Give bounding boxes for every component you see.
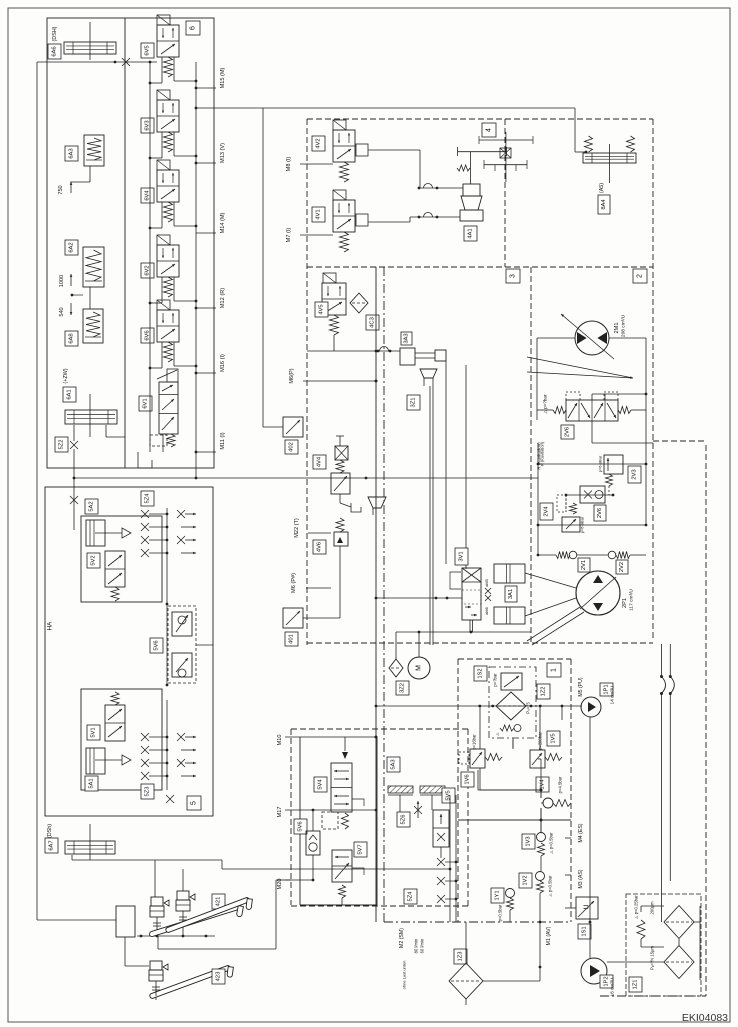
orifice rows upper: [141, 510, 149, 518]
svg-text:1: 1: [551, 668, 558, 672]
valve 4V4: [339, 436, 341, 446]
svg-text:M10: M10: [277, 735, 283, 746]
svg-text:6: 6: [190, 26, 197, 30]
svg-text:M6(P): M6(P): [289, 368, 295, 383]
right bus: [195, 62, 197, 478]
svg-text:3Z2: 3Z2: [400, 683, 406, 693]
component 3A3: [401, 332, 412, 345]
svg-text:5V2: 5V2: [91, 555, 97, 565]
small wires: [540, 856, 542, 871]
svg-text:6A1: 6A1: [67, 389, 73, 399]
swash lever: [527, 357, 633, 378]
svg-text:2V1: 2V1: [581, 560, 587, 570]
M group wires: [312, 810, 314, 831]
pilot 4V1: [356, 214, 368, 226]
svg-text:421: 421: [216, 897, 222, 907]
svg-text:1V6: 1V6: [465, 774, 471, 784]
port label M14 (M): [196, 232, 216, 234]
check 1V3: [537, 833, 546, 842]
pedal A: [149, 905, 240, 937]
master cylinder C: [150, 961, 162, 970]
cylinder 5A2: [85, 499, 98, 514]
svg-text:5V7: 5V7: [358, 844, 364, 854]
cylinder 5A1: [86, 748, 105, 774]
pedal wires: [37, 919, 116, 921]
label 5Z3: [141, 784, 154, 799]
group 6 box: [47, 18, 214, 468]
filter 4C3: [350, 293, 368, 313]
svg-text:3: 3: [510, 274, 517, 278]
wires bottom: [465, 922, 467, 963]
check 1V4: [543, 798, 553, 808]
check 1V2: [519, 873, 532, 888]
svg-text:5A2: 5A2: [89, 501, 95, 511]
svg-text:5V6: 5V6: [154, 640, 160, 650]
wire y706: [376, 705, 582, 707]
svg-text:1V3: 1V3: [526, 836, 532, 846]
kavitation wires: [537, 443, 539, 556]
svg-text:M2 (SM): M2 (SM): [399, 928, 405, 948]
group1 wires: [479, 706, 481, 749]
svg-text:16 cm³/U: 16 cm³/U: [610, 978, 615, 997]
svg-text:5Z4: 5Z4: [145, 493, 151, 504]
group1 wires: [477, 770, 479, 790]
label 423: [212, 969, 225, 984]
stems: [156, 931, 158, 936]
svg-text:p=?bar: p=?bar: [493, 673, 498, 687]
pump 1P2: [581, 958, 607, 984]
svg-text:aM6: aM6: [485, 607, 489, 614]
wire below 6A6: [37, 61, 157, 63]
svg-text:3V1: 3V1: [459, 551, 465, 561]
svg-text:HA: HA: [47, 621, 54, 630]
svg-text:2V6: 2V6: [565, 427, 571, 437]
check 2V2: [608, 551, 616, 559]
tank bracket: [138, 452, 152, 468]
svg-text:aM5: aM5: [485, 579, 489, 586]
svg-text:M3 (AS): M3 (AS): [578, 869, 584, 888]
svg-text:4V4: 4V4: [317, 456, 323, 467]
svg-text:1V2: 1V2: [523, 875, 529, 885]
orifice: [70, 441, 78, 449]
valve 6V3: [157, 90, 170, 100]
svg-text:1Z3: 1Z3: [458, 952, 464, 962]
orifice rows lower: [141, 733, 149, 741]
filter 1Z3: [454, 949, 467, 964]
port label M15 (M): [196, 87, 216, 89]
svg-text:EKI04083: EKI04083: [682, 1012, 728, 1024]
bypass valve: [501, 673, 522, 690]
svg-text:M6 (P#): M6 (P#): [291, 573, 297, 593]
svg-text:5A1: 5A1: [89, 778, 95, 788]
svg-text:5V6: 5V6: [298, 821, 304, 831]
svg-text:117 cm³/U: 117 cm³/U: [629, 589, 635, 611]
label 421: [212, 894, 225, 909]
svg-text:(DSh): (DSh): [47, 824, 53, 838]
HA box: [45, 487, 213, 816]
svg-text:208 cm³/U: 208 cm³/U: [621, 314, 627, 337]
svg-text:6A7: 6A7: [49, 840, 55, 850]
pump 1P1: [581, 697, 601, 717]
svg-text:M1 (AV): M1 (AV): [546, 926, 552, 945]
master cylinder A: [151, 897, 163, 906]
svg-text:6V5: 6V5: [145, 45, 151, 55]
relief 1V6: [470, 749, 485, 768]
label 5A3: [387, 757, 400, 772]
port M11: [196, 451, 216, 453]
coupling wires: [661, 644, 663, 677]
svg-text:M8 (I): M8 (I): [286, 157, 292, 172]
svg-text:2: 2: [637, 274, 644, 278]
port label M12 (R): [196, 307, 216, 309]
svg-text:p=6-9Bar: p=6-9Bar: [598, 455, 603, 472]
group 1 label: [547, 663, 561, 677]
svg-text:M17: M17: [277, 807, 283, 818]
svg-text:5: 5: [191, 801, 198, 805]
svg-text:(A5): (A5): [599, 183, 605, 193]
accumulator 6A8: [83, 309, 103, 343]
group 3 label: [506, 269, 520, 283]
svg-text:△ p=0.25bar: △ p=0.25bar: [634, 895, 639, 919]
svg-text:△ p=0.5bar: △ p=0.5bar: [548, 875, 553, 897]
svg-text:M12 (R): M12 (R): [220, 288, 226, 308]
valve 4V2: [333, 120, 346, 130]
svg-text:p=0.5bar: p=0.5bar: [498, 904, 503, 921]
svg-text:6V1: 6V1: [143, 398, 149, 408]
group 4 label: [482, 123, 496, 137]
motor M: [418, 632, 420, 657]
svg-text:M11 (I): M11 (I): [220, 432, 226, 449]
svg-text:5V1: 5V1: [91, 727, 97, 737]
valve 4V6 relief: [336, 518, 344, 532]
svg-text:p=16bar: p=16bar: [472, 734, 477, 750]
svg-text:1S1: 1S1: [582, 926, 588, 936]
svg-text:p=6-9Bar: p=6-9Bar: [580, 516, 585, 533]
svg-text:401: 401: [289, 634, 295, 644]
relief 2V5: [604, 455, 623, 474]
svg-text:1S2: 1S2: [478, 668, 484, 678]
svg-text:4V6: 4V6: [317, 542, 323, 552]
2V6 outlet: [591, 421, 593, 443]
svg-text:8A4: 8A4: [601, 199, 607, 210]
steering unit 4A1: [470, 152, 472, 184]
pump 2P1: [576, 571, 620, 615]
label 1P1: [600, 683, 613, 696]
switch 1S1: [576, 897, 598, 919]
svg-text:402: 402: [289, 442, 295, 452]
svg-text:Pₙ=75: Pₙ=75: [526, 702, 531, 714]
svg-text:R (Kavitation): R (Kavitation): [540, 441, 545, 466]
valve 5V6 mid: [168, 606, 196, 683]
cylinder 6A6: [64, 42, 116, 54]
label 4A1: [464, 226, 477, 241]
svg-text:4V2: 4V2: [316, 138, 322, 148]
svg-text:1V4: 1V4: [540, 779, 546, 790]
svg-text:5V5: 5V5: [446, 790, 452, 800]
svg-text:M22 (T): M22 (T): [294, 518, 300, 538]
svg-text:5Z6: 5Z6: [401, 815, 407, 825]
svg-text:2P1: 2P1: [622, 598, 628, 608]
svg-text:5Z4: 5Z4: [408, 891, 414, 902]
check 5V6b: [294, 819, 307, 834]
svg-text:540: 540: [59, 307, 65, 316]
svg-text:6A6: 6A6: [52, 46, 58, 56]
label 5Z4: [141, 491, 154, 506]
filter diamond: [496, 692, 526, 720]
svg-text:4C3: 4C3: [370, 317, 376, 328]
svg-text:1Z1: 1Z1: [633, 980, 639, 990]
hatched pad A: [388, 786, 413, 793]
throttle arrow: [414, 806, 422, 814]
valve 1Y1: [491, 888, 504, 903]
svg-text:M7 (I): M7 (I): [286, 228, 292, 243]
cylinder 3A1 bottom: [494, 607, 525, 624]
3V1 tank pipe: [469, 620, 471, 632]
svg-text:M14 (M): M14 (M): [220, 212, 226, 233]
1Z1 wires: [678, 939, 680, 946]
hatched pad B: [420, 786, 445, 793]
label 5Z2: [55, 437, 68, 452]
svg-text:1Z2: 1Z2: [541, 687, 547, 697]
svg-text:14 cm³/U: 14 cm³/U: [610, 686, 615, 705]
svg-text:△ p=?bar: △ p=?bar: [543, 394, 548, 413]
svg-text:M16 (I): M16 (I): [220, 354, 226, 372]
valve 6V6: [157, 300, 170, 310]
pedal bus: [137, 935, 215, 937]
pilot 4V2: [356, 144, 368, 156]
group 5 label: [187, 796, 201, 810]
wires from HA: [71, 855, 73, 860]
svg-text:5A3: 5A3: [391, 759, 397, 769]
svg-text:3A1: 3A1: [508, 589, 514, 599]
valve 4V1: [333, 190, 346, 200]
valve 6V1: [159, 382, 178, 434]
filter unit 1Z2 box: [489, 667, 536, 738]
sub box lower: [81, 689, 162, 790]
wires to steering: [368, 149, 420, 151]
group boundary dashes: [306, 119, 308, 645]
svg-text:M13 (V): M13 (V): [220, 143, 226, 163]
svg-text:2V6: 2V6: [597, 508, 603, 518]
strainer 3Z1: [420, 369, 437, 378]
svg-text:3Z1: 3Z1: [411, 398, 417, 408]
stem C: [155, 995, 157, 1000]
svg-text:6A8: 6A8: [69, 333, 75, 343]
throttle check 2V4: [566, 494, 613, 496]
svg-text:(DSH): (DSH): [52, 26, 58, 41]
orifice2: [70, 496, 78, 504]
valve 6V4: [157, 160, 170, 170]
wire: [333, 335, 335, 351]
inner solid box M ports: [299, 737, 301, 905]
wire 4V6 down: [339, 570, 341, 618]
valve 6V5: [157, 15, 170, 25]
svg-text:Pₑ=?N 15μm: Pₑ=?N 15μm: [650, 946, 655, 970]
sub box upper: [81, 516, 162, 602]
valve 5V2: [105, 551, 125, 587]
wire bus y478: [74, 477, 538, 479]
label 6A3: [65, 146, 78, 161]
pedal C: [150, 966, 230, 999]
spring check: [500, 725, 514, 731]
svg-text:6A3: 6A3: [69, 148, 75, 158]
svg-text:M15 (M): M15 (M): [220, 67, 226, 88]
pressure switch 402: [283, 417, 303, 437]
left bus: [149, 62, 151, 452]
svg-text:M5 (PU): M5 (PU): [578, 677, 584, 697]
relief 1V5: [530, 750, 545, 768]
svg-text:4V1: 4V1: [316, 209, 322, 219]
svg-text:M4 (ES): M4 (ES): [578, 823, 584, 842]
group 6 label: [186, 21, 200, 35]
main bus vertical: [375, 267, 377, 922]
pressure switch 401: [283, 608, 303, 628]
label 5Z4b: [404, 889, 417, 904]
svg-text:6A2: 6A2: [69, 242, 75, 252]
svg-text:1V5: 1V5: [551, 733, 557, 743]
svg-text:2M1: 2M1: [614, 323, 620, 334]
motor 2M1: [575, 321, 609, 355]
svg-text:5Z3: 5Z3: [145, 787, 151, 797]
svg-text:200μm: 200μm: [650, 901, 655, 914]
relief 2V6b: [562, 517, 580, 532]
svg-text:3A3: 3A3: [404, 333, 410, 343]
svg-text:4A1: 4A1: [468, 228, 474, 238]
coupling B: [669, 675, 672, 678]
mid bus: [166, 508, 168, 604]
svg-text:ohne Last unten: ohne Last unten: [402, 961, 407, 990]
orifice column: [437, 858, 445, 866]
svg-text:1000: 1000: [59, 275, 65, 287]
svg-text:1Y1: 1Y1: [495, 890, 501, 900]
valve 5V7: [332, 850, 352, 882]
svg-text:2V4: 2V4: [544, 506, 550, 517]
cylinder 3A1 top: [494, 564, 525, 583]
loop wires: [537, 337, 575, 339]
wire 3A3 to 3V1: [445, 361, 447, 564]
svg-text:2V3: 2V3: [632, 469, 638, 479]
svg-text:M20: M20: [277, 879, 283, 890]
accumulator 6A2: [83, 247, 104, 287]
svg-text:4: 4: [486, 128, 493, 132]
master cylinder B: [177, 891, 189, 900]
drive shaft 2P1: [527, 607, 580, 641]
svg-text:5V4: 5V4: [318, 779, 324, 790]
valve block 3V1: [455, 548, 468, 565]
port label M16 (I): [196, 372, 216, 374]
wire y820: [458, 819, 571, 821]
svg-text:60 l/min: 60 l/min: [420, 938, 425, 953]
pedal B: [166, 898, 249, 933]
valve 2V6: [566, 400, 618, 421]
check 2V1: [556, 552, 570, 559]
cylinder 8A4: [583, 153, 636, 163]
bus dots: [375, 350, 378, 353]
wire y820: [458, 819, 571, 821]
svg-text:(+ZW): (+ZW): [63, 368, 69, 383]
valve 4V5: [323, 273, 336, 283]
valve 5V1: [111, 692, 119, 705]
valve 5V4: [331, 763, 352, 812]
wire top bus: [196, 107, 263, 109]
bus x450: [449, 795, 451, 922]
strainer+motor 3Z2: [368, 497, 386, 508]
wire left vertical: [36, 62, 38, 920]
svg-text:2V2: 2V2: [619, 562, 625, 572]
port label M13 (V): [196, 162, 216, 164]
svg-text:△ p=0.5bar: △ p=0.5bar: [549, 832, 554, 854]
accumulator 6A3: [84, 135, 104, 166]
coupling A: [660, 675, 663, 678]
svg-text:80 l/min: 80 l/min: [414, 938, 419, 953]
group 2 label: [633, 269, 647, 283]
label 5Z6: [397, 812, 410, 827]
pad wires: [399, 795, 401, 822]
reservoir: [116, 906, 135, 937]
svg-text:5Z2: 5Z2: [59, 440, 65, 450]
valve 6V2: [157, 235, 170, 245]
svg-text:750: 750: [58, 185, 64, 194]
svg-text:p=4.5bar: p=4.5bar: [558, 776, 563, 793]
wires to pump: [525, 573, 576, 588]
check row wire: [538, 554, 556, 556]
filter unit 1Z1: [626, 894, 701, 996]
orifice X: [122, 58, 130, 66]
wire y598: [376, 597, 462, 599]
valve 5V5: [442, 788, 455, 803]
svg-text:4V5: 4V5: [319, 304, 325, 314]
svg-text:423: 423: [216, 972, 222, 982]
tank bracket: [351, 503, 361, 512]
svg-text:M: M: [416, 665, 423, 671]
